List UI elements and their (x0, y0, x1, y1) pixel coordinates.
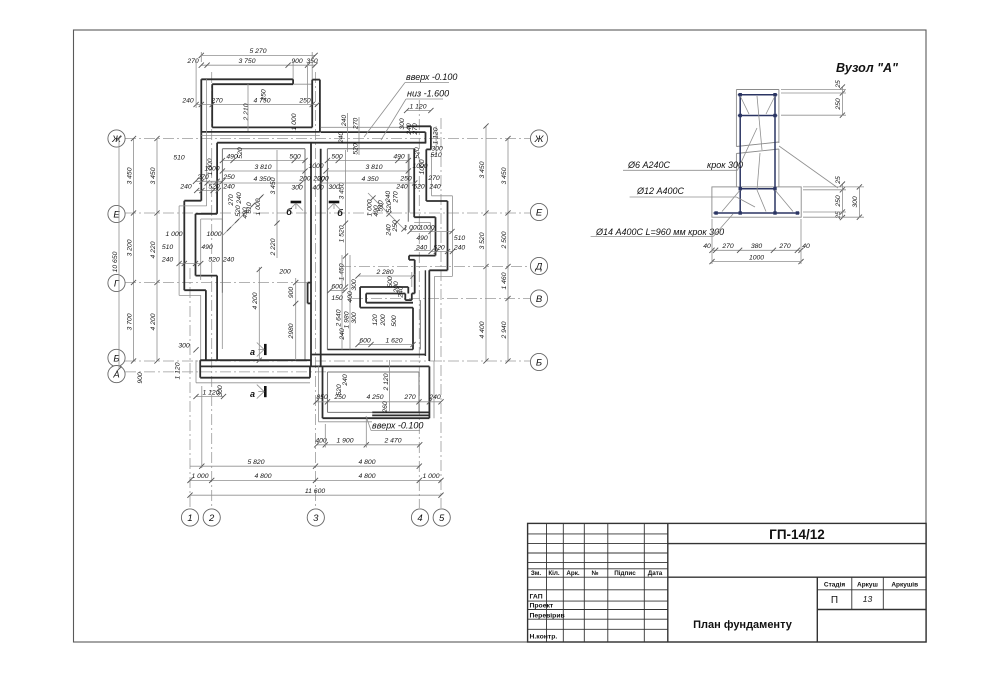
sheet frame (74, 30, 927, 642)
svg-text:4 400: 4 400 (479, 321, 486, 338)
svg-text:240: 240 (339, 328, 346, 341)
svg-text:240: 240 (453, 244, 466, 251)
svg-text:380: 380 (751, 243, 763, 250)
axis bubbles left (108, 130, 125, 383)
svg-text:1 980: 1 980 (344, 311, 351, 328)
svg-text:3 700: 3 700 (126, 313, 133, 330)
svg-text:Аркушів: Аркушів (891, 581, 918, 589)
svg-text:План фундаменту: План фундаменту (693, 619, 793, 631)
interior dimensions right room (316, 146, 465, 350)
svg-text:Проект: Проект (530, 603, 554, 610)
svg-text:270: 270 (427, 175, 440, 182)
svg-text:270: 270 (403, 394, 416, 401)
svg-text:Аркуш: Аркуш (857, 582, 878, 589)
svg-text:500: 500 (391, 315, 398, 327)
niche footing inner ring (414, 221, 430, 223)
svg-text:Вузол "А": Вузол "А" (836, 61, 899, 75)
svg-text:500: 500 (331, 153, 343, 160)
svg-text:270: 270 (412, 123, 419, 136)
svg-text:2 470: 2 470 (383, 438, 401, 445)
svg-text:1 900: 1 900 (336, 438, 353, 445)
main top wall along axis Zh (217, 143, 426, 222)
svg-text:3: 3 (313, 513, 319, 524)
svg-text:240: 240 (222, 256, 235, 263)
svg-text:240: 240 (181, 97, 194, 104)
svg-text:520: 520 (353, 143, 360, 155)
svg-text:200: 200 (380, 314, 387, 327)
svg-text:240: 240 (342, 374, 349, 387)
svg-text:490: 490 (201, 244, 213, 251)
svg-text:3 750: 3 750 (238, 58, 255, 65)
svg-text:4 220: 4 220 (150, 241, 157, 258)
axis bubbles right (530, 130, 547, 371)
svg-text:250: 250 (399, 175, 412, 182)
svg-text:Ø12 А400С: Ø12 А400С (636, 186, 685, 196)
svg-text:4 800: 4 800 (254, 473, 271, 480)
svg-text:200: 200 (278, 269, 291, 276)
svg-text:1000: 1000 (308, 163, 323, 170)
svg-text:490: 490 (393, 153, 405, 160)
svg-text:300: 300 (328, 184, 340, 191)
svg-text:Підпис: Підпис (614, 569, 636, 577)
svg-text:1000: 1000 (749, 254, 764, 261)
svg-text:240: 240 (338, 132, 345, 145)
svg-text:240: 240 (398, 286, 405, 299)
svg-text:П: П (831, 595, 838, 606)
interior hook wall (G-shape) (360, 287, 415, 350)
svg-text:520: 520 (208, 256, 220, 263)
svg-text:4 350: 4 350 (361, 176, 378, 183)
svg-text:510: 510 (173, 155, 185, 162)
svg-text:270: 270 (210, 97, 223, 104)
svg-text:3 450: 3 450 (479, 161, 486, 178)
svg-text:240: 240 (415, 244, 428, 251)
svg-text:510: 510 (246, 202, 253, 214)
svg-text:1000: 1000 (206, 231, 221, 238)
svg-text:300: 300 (178, 343, 190, 350)
svg-text:1 120: 1 120 (175, 362, 182, 379)
svg-text:ГП-14/12: ГП-14/12 (769, 527, 825, 542)
svg-text:Кіл.: Кіл. (548, 569, 560, 577)
left outer wall with steps (179, 143, 222, 361)
svg-text:510: 510 (162, 244, 174, 251)
svg-text:2 640: 2 640 (336, 309, 343, 327)
detail: rebar (714, 93, 800, 215)
bottom dimensions (187, 386, 443, 498)
bottom-left stoop (196, 360, 310, 383)
svg-text:11 600: 11 600 (305, 488, 326, 495)
svg-text:а: а (250, 389, 255, 399)
svg-text:240: 240 (428, 394, 441, 401)
svg-text:520: 520 (237, 147, 244, 159)
detail: thin construction lines (722, 96, 838, 212)
svg-text:2 280: 2 280 (375, 269, 393, 276)
svg-text:300: 300 (399, 118, 406, 130)
svg-text:240: 240 (179, 183, 192, 190)
svg-text:520: 520 (433, 244, 445, 251)
svg-text:300: 300 (217, 385, 224, 397)
svg-text:490: 490 (416, 235, 428, 242)
top strip wall between axis 3 and 4 (321, 113, 431, 155)
svg-text:270: 270 (393, 191, 400, 204)
svg-text:3 450: 3 450 (501, 167, 508, 184)
svg-text:4 800: 4 800 (358, 459, 375, 466)
svg-text:Д: Д (535, 261, 543, 272)
svg-text:3 810: 3 810 (365, 164, 382, 171)
detail labels with leaders (591, 128, 757, 237)
svg-text:а: а (250, 347, 255, 357)
svg-text:Ж: Ж (111, 134, 122, 145)
svg-text:3 810: 3 810 (254, 164, 271, 171)
svg-text:900: 900 (288, 287, 295, 299)
svg-text:40: 40 (802, 243, 810, 250)
svg-text:4: 4 (417, 513, 422, 524)
svg-text:240: 240 (222, 183, 235, 190)
svg-text:240: 240 (428, 183, 441, 190)
detail: footing outline (712, 187, 801, 217)
svg-text:13: 13 (863, 594, 873, 604)
svg-text:Стадія: Стадія (824, 581, 845, 589)
svg-text:Е: Е (536, 207, 543, 218)
left dimension columns (112, 136, 226, 399)
svg-text:240: 240 (236, 192, 243, 205)
svg-text:520: 520 (208, 183, 220, 190)
svg-text:270: 270 (721, 243, 734, 250)
svg-text:200: 200 (298, 175, 311, 182)
svg-text:120: 120 (372, 314, 379, 326)
svg-text:3 520: 3 520 (479, 232, 486, 249)
svg-text:250: 250 (222, 174, 235, 181)
right dimension columns (479, 123, 511, 363)
svg-text:240: 240 (161, 256, 174, 263)
svg-text:1000: 1000 (419, 224, 434, 231)
svg-text:1: 1 (187, 513, 192, 524)
svg-text:300: 300 (351, 312, 358, 324)
svg-text:500: 500 (289, 153, 301, 160)
right outer wall with niche and bay (409, 126, 452, 418)
svg-text:Арк.: Арк. (566, 570, 580, 577)
svg-text:400: 400 (347, 291, 354, 303)
svg-text:1000: 1000 (412, 163, 427, 170)
leader verkh -0.100 top (364, 72, 457, 140)
svg-text:200: 200 (316, 175, 329, 182)
svg-text:4 250: 4 250 (366, 394, 383, 401)
svg-text:4 200: 4 200 (150, 313, 157, 330)
svg-text:10 650: 10 650 (112, 251, 119, 272)
svg-text:1 460: 1 460 (501, 272, 508, 289)
svg-text:250: 250 (835, 98, 842, 111)
annex dimensions (313, 360, 443, 414)
svg-text:Н.контр.: Н.контр. (530, 634, 558, 641)
svg-text:5 820: 5 820 (247, 459, 264, 466)
bottom annex (terrace) (319, 366, 430, 421)
svg-text:Дата: Дата (648, 570, 663, 577)
svg-text:25: 25 (835, 80, 842, 89)
svg-text:300: 300 (852, 196, 859, 208)
svg-text:270: 270 (186, 58, 199, 65)
svg-text:260: 260 (382, 401, 389, 414)
porch walls (top annex) (201, 79, 320, 206)
svg-text:520: 520 (413, 183, 425, 190)
svg-text:2 940: 2 940 (501, 321, 508, 339)
svg-text:5 270: 5 270 (249, 48, 266, 55)
interior dimensions left room (161, 147, 348, 363)
detail: wall section outline (736, 90, 779, 187)
axis bubbles bottom (181, 509, 450, 526)
svg-text:520: 520 (336, 384, 343, 396)
svg-text:2980: 2980 (288, 323, 295, 339)
svg-text:510: 510 (430, 152, 442, 159)
svg-text:4 800: 4 800 (358, 473, 375, 480)
svg-text:Б: Б (536, 357, 542, 368)
svg-text:270: 270 (228, 194, 235, 207)
svg-text:1 000: 1 000 (291, 113, 298, 130)
svg-text:2 220: 2 220 (270, 238, 277, 256)
svg-text:850: 850 (316, 394, 328, 401)
left room inner outline (222, 149, 305, 361)
top dimensions (181, 48, 439, 154)
svg-text:1 120: 1 120 (433, 127, 440, 144)
svg-text:3 450: 3 450 (126, 167, 133, 184)
svg-text:250: 250 (298, 97, 311, 104)
leader verkh -0.100 bottom (366, 416, 423, 431)
svg-text:В: В (536, 294, 543, 305)
svg-text:270: 270 (196, 174, 209, 181)
svg-text:520: 520 (414, 147, 421, 159)
section marks a and b (250, 202, 343, 399)
svg-text:Ø6 А240С: Ø6 А240С (627, 160, 671, 170)
svg-text:1 000: 1 000 (255, 198, 262, 215)
svg-text:2 500: 2 500 (501, 231, 508, 249)
svg-text:250: 250 (835, 195, 842, 208)
svg-text:40: 40 (703, 243, 711, 250)
right wall footing thin lines (435, 126, 437, 154)
svg-text:вверх -0.100: вверх -0.100 (406, 72, 457, 82)
svg-text:25: 25 (835, 176, 842, 185)
svg-text:240: 240 (395, 183, 408, 190)
svg-text:510: 510 (454, 235, 466, 242)
svg-text:2: 2 (208, 513, 215, 524)
svg-text:Ж: Ж (534, 134, 545, 145)
svg-text:270: 270 (353, 118, 360, 131)
svg-text:1000: 1000 (204, 166, 219, 173)
svg-text:1 000: 1 000 (165, 231, 182, 238)
bottom wall along axis B (200, 350, 429, 367)
svg-text:3 200: 3 200 (126, 239, 133, 256)
svg-text:2 120: 2 120 (383, 373, 390, 391)
svg-text:1 620: 1 620 (385, 337, 402, 344)
svg-text:240: 240 (385, 191, 392, 204)
axis grid dash-dot lines (125, 72, 531, 508)
svg-text:2 210: 2 210 (243, 103, 250, 121)
svg-text:б: б (337, 208, 343, 218)
svg-text:300: 300 (291, 184, 303, 191)
title block (528, 523, 927, 642)
svg-text:А: А (112, 370, 119, 381)
svg-text:600: 600 (359, 337, 371, 344)
svg-text:вверх -0.100: вверх -0.100 (372, 421, 423, 431)
svg-text:900: 900 (137, 372, 144, 384)
svg-text:4 350: 4 350 (253, 176, 270, 183)
svg-text:1 000: 1 000 (191, 473, 208, 480)
svg-text:300: 300 (351, 279, 358, 291)
svg-text:600: 600 (331, 283, 343, 290)
detail bottom dimensions (703, 219, 810, 264)
svg-text:низ -1.600: низ -1.600 (407, 89, 449, 99)
right room inner outline (327, 149, 420, 350)
svg-text:240: 240 (341, 115, 348, 128)
svg-text:б: б (286, 207, 292, 217)
svg-text:Перевірив: Перевірив (530, 612, 565, 620)
middle wall axis 3 (308, 143, 321, 367)
detail right dimensions (781, 80, 864, 220)
svg-text:ГАП: ГАП (530, 594, 543, 601)
svg-text:150: 150 (331, 295, 343, 302)
svg-text:250: 250 (392, 220, 399, 233)
svg-text:Зм.: Зм. (531, 570, 542, 577)
svg-text:520: 520 (235, 205, 242, 217)
svg-text:Ø14 А400С L=960 мм крок 30: Ø14 А400С L=960 мм крок 300 (595, 227, 724, 237)
svg-text:крок 300: крок 300 (707, 160, 743, 170)
svg-text:270: 270 (778, 243, 791, 250)
svg-text:1 000: 1 000 (403, 224, 420, 231)
svg-text:3 450: 3 450 (270, 177, 277, 194)
svg-text:3 450: 3 450 (150, 167, 157, 184)
svg-text:4 200: 4 200 (252, 292, 259, 309)
svg-text:5: 5 (439, 513, 445, 524)
svg-text:1 520: 1 520 (338, 225, 345, 242)
svg-text:1 120: 1 120 (409, 103, 426, 110)
svg-text:250: 250 (261, 89, 268, 102)
svg-text:1 000: 1 000 (422, 473, 439, 480)
svg-text:№: № (591, 570, 598, 577)
